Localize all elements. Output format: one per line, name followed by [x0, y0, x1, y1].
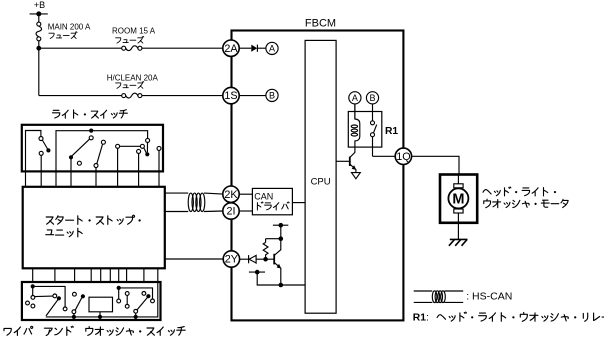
switch WS3	[134, 292, 151, 320]
node A circle (relay side)	[349, 92, 361, 104]
twisted pair braid	[188, 193, 205, 211]
relay R1 coil	[351, 104, 360, 147]
legend HS-CAN text	[466, 291, 512, 303]
wire tick down to emitter return	[257, 272, 305, 285]
wire to wiper switch col 10	[157, 268, 159, 282]
pin 1Q	[395, 148, 411, 164]
node B circle (relay side)	[366, 92, 378, 104]
svg-text:FBCM: FBCM	[305, 17, 336, 29]
svg-text:1S: 1S	[224, 90, 237, 102]
node A circle	[266, 42, 278, 54]
wire light switch col 3	[70, 157, 72, 187]
fuse H/CLEAN 20A	[122, 93, 142, 98]
ground (signal, below Q1)	[352, 173, 361, 179]
wire light switch col 0 below box	[25, 171, 27, 186]
wire pin 2I to CAN driver	[239, 210, 252, 212]
wire light switch col 1	[26, 131, 41, 172]
label start-stop unit	[46, 215, 141, 237]
wire light switch col 7	[158, 150, 160, 186]
wire left rail down to H/CLEAN row	[38, 48, 40, 95]
node +B supply label	[34, 0, 45, 10]
wire WS col1 branch	[33, 286, 67, 310]
svg-text:H/CLEAN 20A: H/CLEAN 20A	[107, 74, 159, 83]
fuse ROOM 15 A	[122, 46, 142, 51]
switch WS2	[72, 292, 85, 319]
wire MAIN fuse to junction	[38, 41, 40, 48]
start-stop unit box	[23, 187, 165, 268]
wire to wiper switch col 3	[74, 268, 76, 282]
label ROOM 15 A fuse	[112, 27, 156, 44]
svg-text:R1: R1	[385, 126, 398, 137]
resistor R2 (base pull-up)	[263, 239, 268, 260]
CPU box	[305, 40, 336, 313]
svg-text:A: A	[269, 44, 275, 54]
wire to wiper switch col 8	[126, 268, 128, 282]
wire light switch col 4	[95, 168, 97, 187]
wire pin 1Q to motor	[411, 156, 459, 174]
wire H/CLEAN fuse to pin 1S	[142, 95, 223, 97]
svg-text:2I: 2I	[226, 206, 235, 218]
wire CAN driver to CPU	[292, 202, 305, 204]
svg-text:1Q: 1Q	[396, 151, 410, 163]
wire light switch top rail	[56, 131, 148, 172]
contact LS right	[157, 146, 161, 150]
svg-text:B: B	[269, 91, 275, 101]
wire light switch col 6	[138, 153, 140, 186]
wire to wiper switch col 7	[118, 268, 120, 282]
wire to wiper switch col 5	[100, 268, 102, 282]
CAN driver box	[252, 188, 292, 214]
wire light switch col B below box	[55, 171, 57, 186]
svg-text:+B: +B	[34, 0, 45, 10]
pin 2Y	[223, 251, 239, 267]
wire WS bottom rail	[46, 282, 158, 317]
wire light switch col 2	[40, 155, 42, 187]
svg-text:CPU: CPU	[311, 176, 331, 187]
svg-text:2Y: 2Y	[225, 254, 238, 266]
switch LS2	[69, 136, 93, 160]
label H/CLEAN 20A fuse	[107, 74, 159, 89]
wire ROOM fuse to pin 2A	[142, 47, 223, 49]
label light switch	[52, 110, 127, 118]
switch LS3	[94, 140, 105, 167]
head light washer motor box	[440, 175, 477, 223]
motor M	[448, 175, 468, 223]
wire resistor top rail	[266, 238, 281, 240]
contacts WS col8	[125, 292, 129, 309]
junction dot at resistor foot	[263, 257, 268, 262]
junction dot below MAIN fuse	[36, 46, 41, 51]
ground (chassis, below motor)	[449, 239, 468, 245]
wire start-stop unit to pin 2Y	[165, 258, 223, 260]
svg-text:: HS-CAN: : HS-CAN	[466, 291, 512, 303]
svg-text:MAIN 200 A: MAIN 200 A	[48, 23, 91, 32]
label wiper and washer switch	[4, 326, 185, 335]
junction dot WS col1	[31, 284, 35, 288]
svg-text:CAN: CAN	[254, 192, 273, 202]
wire WS col7 branch	[117, 288, 155, 303]
wire tick to collector rail	[280, 225, 282, 239]
svg-text:2K: 2K	[224, 189, 238, 201]
wire pin 1S to node B	[239, 95, 266, 97]
legend twisted pair symbol	[414, 291, 464, 303]
wire CPU to transistor Q1 base	[336, 160, 349, 162]
wire to wiper switch col 1	[32, 268, 34, 282]
contact LS spare	[77, 161, 81, 165]
wire relay contact to pin 1Q	[373, 155, 396, 157]
wire to wiper switch col 4	[90, 268, 92, 282]
svg-text:R1:: R1:	[413, 312, 429, 323]
tick left of Q2 emitter line	[249, 270, 265, 275]
wire rail to H/CLEAN fuse	[39, 95, 122, 97]
transistor Q1 (relay driver)	[350, 147, 356, 172]
washer unit block	[89, 297, 113, 319]
label R1	[385, 126, 398, 137]
legend R1 relay name	[413, 312, 604, 323]
supply tick above Q2	[273, 223, 288, 228]
+B supply tick	[30, 11, 48, 16]
wire diode D2 to Q2 base	[256, 258, 274, 260]
relay R1 box	[348, 112, 382, 148]
pin 2A	[223, 40, 239, 56]
wire to wiper switch col 2	[54, 268, 56, 282]
wire node A to relay coil	[354, 104, 356, 119]
wire diode to node A	[257, 47, 266, 49]
wire to wiper switch col 9	[143, 268, 145, 282]
wire pin 2Y to diode D2	[239, 258, 248, 260]
wire light switch col 5	[117, 148, 119, 187]
fuse MAIN 200 A (fusible link)	[36, 22, 41, 41]
wiper and washer switch box	[22, 282, 161, 320]
wire pin 2K to CAN driver	[239, 193, 252, 195]
wire +B to MAIN fuse	[38, 14, 40, 22]
wire node B to relay contact	[372, 104, 374, 121]
wire junction to ROOM fuse	[39, 47, 122, 49]
junction dot on top rail	[89, 129, 93, 133]
light switch box	[22, 125, 163, 172]
diode D (2A row)	[251, 45, 257, 52]
switch LS4 contacts	[116, 138, 150, 156]
label FBCM	[305, 17, 336, 29]
svg-text:2A: 2A	[224, 43, 238, 55]
switch WS1	[46, 294, 61, 316]
junction dot WS col7	[117, 286, 121, 290]
label MAIN 200 A fuse	[48, 23, 91, 39]
contacts WS left cluster	[26, 286, 53, 308]
label head light washer motor	[483, 187, 568, 208]
transistor Q2	[274, 239, 281, 285]
FBCM module box	[232, 31, 404, 321]
svg-text:ROOM 15 A: ROOM 15 A	[112, 27, 156, 36]
wire pin 2A to diode	[239, 47, 251, 49]
pin 1S	[223, 87, 239, 103]
node B circle	[266, 89, 278, 101]
pin 2K	[223, 186, 239, 202]
svg-text:B: B	[369, 93, 375, 103]
relay R1 contact switch	[371, 121, 377, 157]
junction dot on collector rail	[279, 236, 284, 241]
twisted pair HS-CAN wires to start-stop unit	[165, 193, 223, 211]
switch LS1	[39, 137, 51, 156]
wire to wiper switch col 6	[109, 268, 111, 282]
junction dot on emitter return	[279, 283, 284, 288]
svg-text:M: M	[452, 192, 464, 208]
diode D2 (2Y row, pointing left)	[249, 255, 257, 263]
wire motor to chassis ground	[457, 223, 459, 240]
svg-text:A: A	[352, 93, 358, 103]
pin 2I	[223, 203, 239, 219]
